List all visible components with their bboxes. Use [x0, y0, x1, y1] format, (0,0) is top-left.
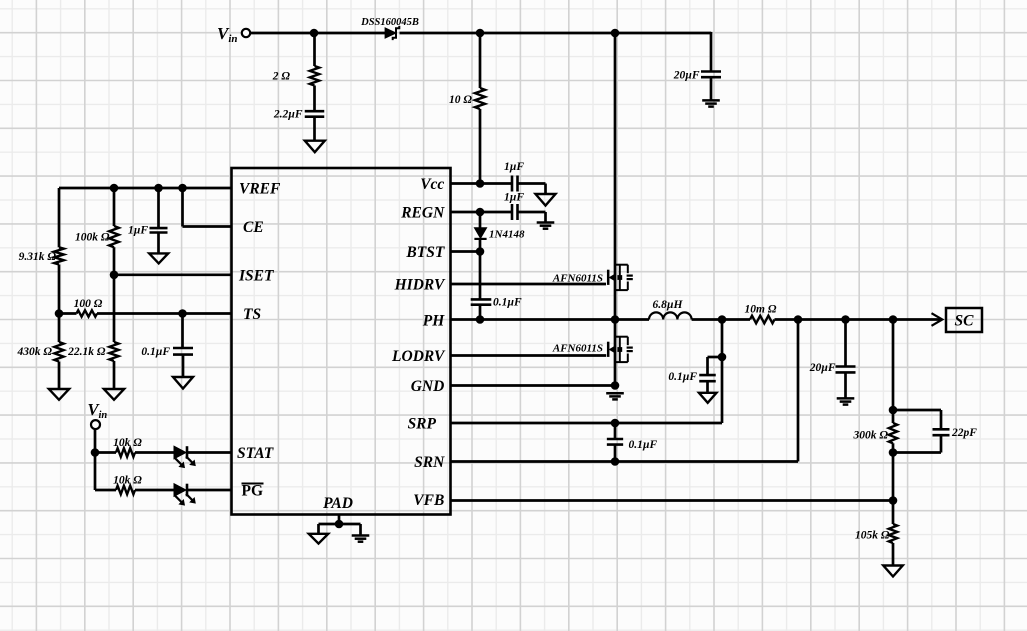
svg-text:10m Ω: 10m Ω — [745, 304, 777, 316]
svg-text:VFB: VFB — [413, 492, 444, 509]
diode D2 1N4148 — [474, 228, 486, 239]
wire 10k to LED1 — [135, 451, 174, 454]
svg-text:PG: PG — [242, 482, 264, 499]
junction SRN filter cap bottom — [611, 457, 620, 466]
wire Q2 drain (PH to low-side FET) — [614, 320, 617, 386]
svg-text:0.1µF: 0.1µF — [141, 346, 170, 358]
svg-text:2.2µF: 2.2µF — [273, 108, 303, 120]
svg-text:20µF: 20µF — [673, 70, 700, 82]
junction PAD — [335, 520, 344, 529]
diode D1 DSS160045B (schottky) — [385, 28, 396, 38]
resistor 300k ohm — [889, 423, 897, 443]
junction VFB tap — [889, 496, 898, 505]
capacitor 1uF REGN — [511, 204, 514, 220]
junction feedback tap — [889, 315, 898, 324]
wire 0.1uF TS top lead — [181, 314, 184, 348]
svg-text:SRN: SRN — [414, 454, 445, 471]
capacitor 0.1uF sense filter — [699, 374, 716, 377]
wire VFB pin run — [451, 499, 894, 502]
wire LED1 to STAT pin — [187, 451, 232, 454]
inductor L1 6.8uH — [649, 312, 692, 319]
svg-text:0.1µF: 0.1µF — [493, 296, 522, 308]
wire 9.31k to TS node — [58, 265, 61, 314]
svg-text:Vin: Vin — [217, 24, 238, 45]
resistor 22.1k ohm — [109, 342, 118, 361]
wire input cap to ground — [710, 77, 713, 100]
svg-text:2 Ω: 2 Ω — [272, 71, 291, 83]
wire 22.1k top lead — [113, 275, 116, 342]
junction VREF-100k — [110, 184, 119, 193]
junction VREF-1uF — [154, 184, 163, 193]
resistor 2 ohm — [310, 66, 319, 86]
wire PAD left drop — [317, 524, 320, 534]
wire 22pF loop top — [893, 409, 941, 412]
svg-text:22.1k Ω: 22.1k Ω — [67, 346, 106, 358]
wire PAD cross — [319, 523, 361, 526]
junction SRP node — [718, 315, 727, 324]
wire BTST pin — [451, 250, 481, 253]
svg-text:10k Ω: 10k Ω — [113, 475, 142, 487]
wire divider middle — [892, 443, 895, 524]
wire PAD stub — [338, 515, 341, 525]
ground earth (input cap) — [702, 99, 720, 102]
junction SRN node — [794, 315, 803, 324]
wire bootstrap cap to PH — [479, 305, 482, 320]
ground arrow (feedback divider) — [883, 566, 903, 577]
ground earth (power GND) — [606, 392, 624, 395]
svg-text:6.8µH: 6.8µH — [653, 299, 684, 311]
svg-text:LODRV: LODRV — [391, 348, 446, 365]
svg-text:Vin: Vin — [88, 400, 108, 421]
wire 430k top lead — [58, 314, 61, 343]
junction TS-0.1uF — [178, 309, 187, 318]
capacitor 0.1uF SRP-SRN — [607, 438, 623, 441]
junction BTST — [476, 247, 485, 256]
node SC output box — [946, 308, 982, 332]
svg-text:100k Ω: 100k Ω — [75, 232, 110, 244]
LED D4 (PG) — [174, 484, 186, 497]
resistor 100k ohm — [109, 226, 119, 247]
wire 1uF VREF to ground — [157, 233, 160, 254]
svg-text:AFN6011S: AFN6011S — [552, 272, 603, 284]
junction VREF-CE — [178, 184, 187, 193]
wire 430k to ground — [58, 362, 61, 390]
svg-text:0.1µF: 0.1µF — [668, 371, 697, 383]
junction divider top — [889, 406, 898, 415]
svg-text:SRP: SRP — [408, 415, 437, 432]
junction TS left node — [55, 309, 64, 318]
wire 105k to ground — [892, 543, 895, 566]
junction ISET — [110, 271, 119, 280]
ground earth (PAD) — [352, 534, 370, 537]
arrow to SC output — [932, 313, 943, 326]
wire Vin LED drop — [94, 429, 97, 490]
junction GND at FET source — [611, 381, 620, 390]
wire 100k top lead — [113, 188, 116, 226]
svg-text:20µF: 20µF — [809, 362, 836, 374]
capacitor 0.1uF bootstrap — [471, 298, 492, 301]
wire Vcc cap to ground — [518, 182, 546, 185]
resistor 105k ohm — [889, 524, 897, 543]
resistor 10 ohm — [475, 88, 485, 109]
wire CE branch — [181, 188, 184, 227]
capacitor 1uF Vcc — [511, 176, 514, 192]
wire VREF rail — [59, 187, 232, 190]
svg-text:STAT: STAT — [237, 445, 274, 462]
wire input cap drop — [710, 32, 713, 71]
resistor 10m ohm sense — [750, 316, 775, 324]
svg-text:430k Ω: 430k Ω — [17, 346, 53, 358]
resistor 10k ohm STAT — [116, 448, 135, 457]
ground arrow (430k) — [49, 389, 69, 400]
wire SRP pin run — [451, 422, 723, 425]
wire 22.1k to ground — [113, 361, 116, 389]
wire 10ohm top lead — [479, 33, 482, 88]
svg-text:Vcc: Vcc — [420, 176, 444, 193]
junction SRP filter cap top — [611, 419, 620, 428]
wire STAT to 10k — [95, 451, 116, 454]
wire 2ohm top lead — [313, 33, 316, 66]
svg-text:PH: PH — [423, 312, 445, 329]
svg-text:PAD: PAD — [323, 495, 353, 512]
svg-text:DSS160045B: DSS160045B — [360, 17, 419, 28]
svg-text:1N4148: 1N4148 — [489, 228, 525, 240]
svg-text:BTST: BTST — [405, 244, 444, 261]
wire diode to BTST — [479, 239, 482, 252]
svg-text:9.31k Ω: 9.31k Ω — [19, 251, 57, 263]
capacitor 2.2uF — [305, 110, 325, 113]
wire SRN riser — [797, 320, 800, 462]
resistor 430k ohm — [54, 342, 63, 362]
wire feedback drop — [892, 320, 895, 424]
wire 9.31k top lead — [58, 188, 61, 247]
wire sense filter cap to ground — [706, 381, 709, 392]
wire SRN pin run — [451, 460, 799, 463]
ground earth (output cap) — [837, 397, 855, 400]
wire Vcc pin — [451, 182, 513, 185]
svg-text:VREF: VREF — [239, 180, 281, 197]
wire ISET pin run — [114, 273, 232, 276]
svg-text:1µF: 1µF — [504, 191, 524, 203]
wire 0.1uF TS to ground — [182, 355, 185, 377]
capacitor 20uF output — [836, 365, 856, 368]
wire TS pin run — [97, 312, 232, 315]
wire output cap drop — [844, 320, 847, 367]
wire 2ohm to cap — [313, 86, 316, 112]
resistor 10k ohm PG — [116, 486, 135, 495]
capacitor 1uF VREF — [150, 227, 168, 230]
wire TS node to 100ohm — [59, 312, 77, 315]
wire SRP cap top lead — [614, 423, 617, 439]
wire REGN cap to ground — [518, 211, 546, 214]
junction Vcc — [476, 179, 485, 188]
junction PH at bootstrap cap — [476, 315, 485, 324]
wire high-side drain rail — [614, 33, 617, 320]
junction REGN — [476, 208, 485, 217]
ground arrow (0.1uF TS) — [173, 377, 193, 389]
wire 10k to LED2 — [135, 489, 174, 492]
wire PH pin to inductor — [451, 318, 650, 321]
node Vin input terminal — [242, 29, 250, 37]
ground arrow (1uF VREF) — [149, 253, 168, 263]
svg-text:300k Ω: 300k Ω — [853, 429, 889, 441]
svg-text:10 Ω: 10 Ω — [449, 94, 472, 106]
wire Vin rail (terminal to diode) — [250, 32, 385, 35]
capacitor 20uF input — [701, 70, 721, 73]
wire REGN pin — [451, 211, 513, 214]
wire 100k to ISET — [113, 247, 116, 275]
resistor 9.31k ohm — [54, 247, 64, 264]
junction top of 10ohm — [476, 29, 485, 38]
wire LODRV pin to Q2 gate — [451, 354, 607, 357]
wire 1uF VREF top lead — [157, 188, 160, 228]
wire inductor to sense resistor — [692, 318, 750, 321]
IC U1 charger controller — [232, 168, 451, 515]
wire 10ohm to Vcc — [479, 109, 482, 184]
ground earth (REGN cap) — [537, 221, 555, 224]
junction top of high-side FET rail — [611, 29, 620, 38]
svg-text:CE: CE — [243, 219, 264, 236]
wire PG branch — [95, 489, 116, 492]
wire SRN cap bottom lead — [614, 445, 617, 462]
wire sense filter branch — [708, 356, 723, 359]
junction STAT tap — [91, 448, 100, 457]
ground arrow (sense filter) — [699, 393, 717, 403]
svg-text:10k Ω: 10k Ω — [113, 437, 142, 449]
svg-text:GND: GND — [411, 378, 445, 395]
wire LED2 to PG pin — [187, 489, 232, 492]
svg-text:ISET: ISET — [238, 267, 274, 284]
svg-text:HIDRV: HIDRV — [394, 276, 446, 293]
wire GND pin — [451, 384, 616, 387]
ground arrow (Vcc cap) — [536, 194, 556, 206]
node Vin LED terminal — [91, 420, 100, 429]
svg-text:1µF: 1µF — [128, 225, 148, 237]
wire BTST to bootstrap cap — [479, 252, 482, 300]
transistor Q2 AFN6011S (low-side NMOS) — [607, 342, 610, 357]
junction divider bottom — [889, 448, 898, 457]
wire Vin rail (diode to corner) — [400, 32, 712, 35]
svg-text:SC: SC — [955, 313, 975, 330]
ground arrow (22.1k) — [104, 389, 124, 400]
capacitor 0.1uF TS — [173, 347, 193, 350]
svg-text:REGN: REGN — [400, 204, 445, 221]
wire cap to ground — [313, 117, 316, 141]
svg-text:0.1µF: 0.1µF — [629, 439, 658, 451]
wire HIDRV pin to Q1 gate — [451, 283, 607, 286]
wire REGN to diode — [479, 212, 482, 228]
wire 22pF loop bottom — [940, 435, 943, 452]
LED D3 (STAT) — [174, 446, 186, 459]
wire sense resistor to output — [775, 318, 941, 321]
junction sense filter tap — [718, 353, 727, 362]
svg-text:22pF: 22pF — [951, 427, 977, 439]
ground arrow (2.2uF) — [305, 141, 325, 153]
svg-text:100 Ω: 100 Ω — [74, 298, 103, 310]
junction PH at FET rail — [611, 315, 620, 324]
resistor 100 ohm — [77, 310, 98, 316]
svg-text:105k Ω: 105k Ω — [855, 529, 890, 541]
junction top of 2ohm — [310, 29, 319, 38]
capacitor 22pF feedback — [933, 428, 950, 431]
wire SRP riser — [721, 320, 724, 424]
wire PAD right drop — [359, 524, 362, 535]
wire output cap to ground — [844, 373, 847, 399]
svg-text:1µF: 1µF — [504, 161, 524, 173]
svg-text:AFN6011S: AFN6011S — [552, 342, 603, 354]
ground arrow (PAD) — [309, 534, 328, 544]
transistor Q1 AFN6011S (high-side NMOS) — [607, 270, 610, 285]
svg-text:TS: TS — [243, 306, 261, 323]
junction output cap tap — [841, 315, 850, 324]
